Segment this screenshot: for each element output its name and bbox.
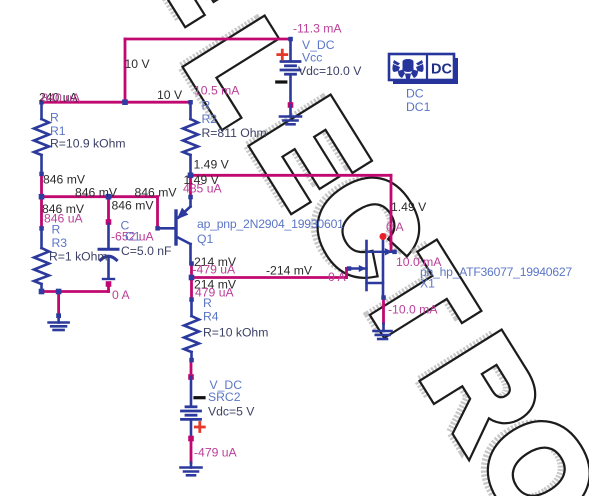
svg-text:10 V: 10 V	[125, 57, 151, 71]
junction node 846mV rail	[39, 194, 45, 200]
svg-text:1.49 V: 1.49 V	[391, 200, 427, 214]
wire collector node horizontal (-214 mV)	[192, 276, 347, 279]
svg-text:Vcc: Vcc	[302, 51, 322, 65]
watermark letter C	[274, 145, 451, 306]
svg-text:1.49 V: 1.49 V	[194, 158, 230, 172]
svg-text:846 mV: 846 mV	[112, 199, 155, 213]
svg-text:846 mV: 846 mV	[75, 185, 118, 199]
junction node 846mV at C1	[106, 194, 112, 200]
svg-text:Vdc=10.0 V: Vdc=10.0 V	[298, 64, 362, 78]
svg-text:-214 mV: -214 mV	[266, 264, 313, 278]
wire FET source to ground	[382, 298, 385, 324]
svg-text:R2: R2	[202, 112, 218, 126]
svg-text:R4: R4	[203, 310, 219, 324]
node dot (red)	[380, 233, 387, 240]
wire Q1 collector to R4	[190, 264, 193, 300]
svg-text:R=1 kOhm: R=1 kOhm	[49, 250, 108, 264]
svg-text:C=5.0 nF: C=5.0 nF	[121, 244, 171, 258]
svg-text:Q1: Q1	[197, 232, 213, 246]
wire node 10V rail to R1/R2	[42, 101, 191, 104]
plus mark	[278, 50, 287, 59]
resistor R2	[183, 100, 198, 175]
watermark letter T	[329, 226, 499, 375]
resistor R1	[34, 100, 49, 176]
svg-text:R=10.9 kOhm: R=10.9 kOhm	[50, 137, 126, 151]
resistor R3	[34, 226, 49, 294]
wire R1 to R3 (node 846 mV)	[40, 174, 43, 228]
junction node 0V at ground	[56, 289, 62, 295]
sim icon	[392, 59, 423, 80]
svg-text:DC: DC	[406, 87, 424, 101]
capacitor C1	[99, 219, 118, 287]
svg-text:-11.3 mA: -11.3 mA	[293, 22, 342, 36]
svg-text:10.5 mA: 10.5 mA	[194, 84, 240, 98]
svg-text:R: R	[202, 99, 211, 113]
annotation labels	[39, 22, 572, 460]
V_DC source Vcc	[277, 37, 300, 108]
wire base drop to Q1	[156, 197, 159, 229]
wire C1 top lead	[107, 197, 110, 222]
svg-text:-10.0 mA: -10.0 mA	[388, 303, 438, 317]
svg-text:0 A: 0 A	[386, 220, 404, 234]
svg-text:R: R	[50, 111, 59, 125]
svg-text:C1: C1	[125, 230, 141, 244]
svg-text:-479 uA: -479 uA	[193, 263, 237, 277]
junction node 0V at R3	[39, 289, 45, 295]
svg-text:R=10 kOhm: R=10 kOhm	[203, 326, 268, 340]
wire bottom left (node 0)	[42, 290, 109, 293]
transistor Q1 (PNP)	[155, 195, 194, 266]
FET X1	[347, 233, 397, 300]
wire gate stub	[347, 267, 350, 270]
svg-text:DC1: DC1	[406, 100, 431, 114]
wire corner up to C1 bottom	[107, 283, 110, 292]
V_DC source SRC2	[182, 374, 205, 441]
ground (below Vcc)	[280, 105, 301, 124]
svg-text:R: R	[203, 296, 212, 310]
resistor R4	[184, 297, 199, 362]
ground (bottom left)	[49, 313, 69, 330]
wire emitter node horizontal (1.49 V)	[191, 174, 392, 177]
svg-text:0 A: 0 A	[328, 270, 346, 284]
wire SRC2 to ground	[190, 439, 193, 463]
svg-text:R=811 Ohm: R=811 Ohm	[202, 126, 267, 140]
wire R2 bottom to Q1 emitter	[189, 175, 192, 197]
svg-text:840 uA: 840 uA	[42, 91, 81, 105]
watermark letter R	[390, 310, 567, 471]
svg-text:ap_pnp_2N2904_19930601: ap_pnp_2N2904_19930601	[197, 217, 344, 231]
svg-text:Vdc=5 V: Vdc=5 V	[208, 405, 255, 419]
wire ground branch left	[57, 292, 60, 316]
watermark letter E2	[219, 75, 392, 230]
junction node -214mV at collector	[189, 275, 195, 281]
svg-text:846 mV: 846 mV	[135, 185, 178, 199]
ground (FET source)	[374, 324, 392, 340]
svg-text:485 uA: 485 uA	[183, 182, 222, 196]
junction node 10V rail	[122, 99, 128, 105]
svg-text:846 uA: 846 uA	[44, 211, 83, 225]
wire node 846mV horizontal	[42, 195, 158, 198]
wire 10V vertical drop	[124, 39, 127, 102]
plus mark	[195, 423, 204, 432]
svg-text:SRC2: SRC2	[208, 390, 241, 404]
svg-text:-479 uA: -479 uA	[194, 446, 238, 460]
watermark letter L	[153, 0, 323, 145]
svg-text:0 A: 0 A	[112, 288, 130, 302]
svg-text:DC: DC	[431, 62, 452, 78]
DC simulation block DC1	[389, 54, 458, 84]
svg-text:R: R	[52, 223, 61, 237]
wire R4 to SRC2	[190, 360, 193, 377]
minus mark	[195, 396, 204, 399]
junction node 1.49V at R2	[188, 173, 194, 179]
svg-text:10 V: 10 V	[157, 88, 183, 102]
wire Vcc feed (node 10 V top)	[125, 38, 291, 41]
watermark letter O	[444, 388, 589, 496]
watermark letter E1	[113, 0, 286, 43]
minus mark	[277, 80, 286, 83]
svg-text:X1: X1	[420, 277, 435, 291]
svg-text:479 uA: 479 uA	[195, 286, 234, 300]
svg-text:R3: R3	[52, 236, 68, 250]
wire drop to FET drain	[390, 175, 393, 250]
ground (below SRC2)	[181, 463, 202, 476]
svg-text:ph_hp_ATF36077_19940627: ph_hp_ATF36077_19940627	[420, 265, 572, 279]
wire jog up to gate	[345, 269, 348, 278]
